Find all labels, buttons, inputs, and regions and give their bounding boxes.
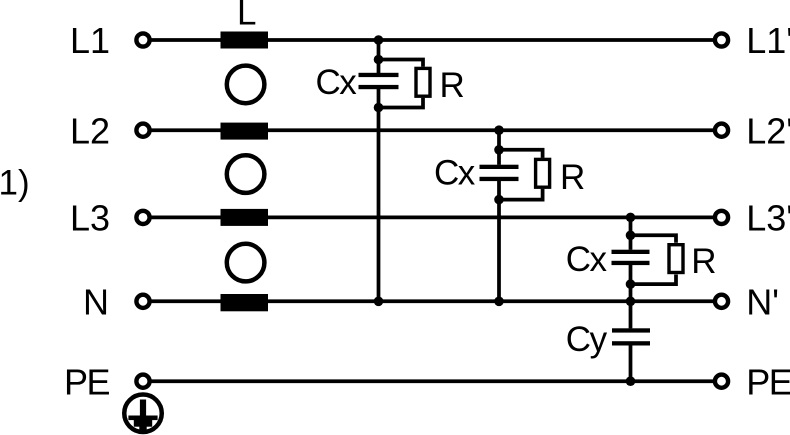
- wire Cy lower lead (to PE): [629, 345, 633, 381]
- svg-text:L3': L3': [746, 198, 790, 239]
- node Cx1/R1 bottom junction: [374, 103, 384, 113]
- node PE/Cy junction: [626, 376, 636, 386]
- node Cx3/R3 top junction: [626, 231, 636, 241]
- svg-text:PE: PE: [64, 362, 110, 403]
- wire Cx1 branch vertical upper: [377, 40, 381, 73]
- node N/Cx2 junction: [494, 297, 504, 307]
- svg-text:L: L: [237, 0, 256, 33]
- terminal L2 left: [136, 124, 149, 137]
- node N/Cx3 junction: [626, 297, 636, 307]
- svg-text:L2: L2: [70, 110, 110, 151]
- node L3/Cx3 junction: [626, 213, 636, 223]
- resistor R3: [669, 245, 683, 273]
- terminal L3' right: [715, 211, 728, 224]
- choke core circle 1: [227, 66, 265, 104]
- node L1/Cx1 junction: [374, 35, 384, 45]
- svg-text:L2': L2': [746, 110, 790, 151]
- terminal L2' right: [715, 124, 728, 137]
- wire R1 top lead: [379, 60, 424, 67]
- node Cx2/R2 bottom junction: [494, 195, 504, 205]
- capacitor Cy bottom plate: [612, 341, 650, 345]
- capacitor Cx2 bottom plate: [480, 177, 519, 181]
- svg-text:L1: L1: [70, 20, 110, 61]
- svg-text:Cx: Cx: [566, 240, 608, 279]
- wire Cx3 branch vertical mid (to N): [629, 265, 633, 329]
- node L2/Cx2 junction: [494, 125, 504, 135]
- terminal L1 left: [136, 33, 149, 46]
- wire L1 net: [143, 38, 721, 42]
- node Cx2/R2 top junction: [494, 145, 504, 155]
- inductor (N line): [221, 294, 269, 311]
- choke core circle 3: [227, 244, 265, 282]
- resistor R2: [536, 159, 550, 187]
- svg-text:Cx: Cx: [434, 154, 476, 193]
- terminal PE right: [715, 375, 728, 388]
- capacitor Cx1 bottom plate: [359, 85, 399, 89]
- inductor (L2 line): [221, 123, 269, 140]
- wire R2 bottom lead: [499, 189, 543, 200]
- resistor R1: [416, 68, 430, 96]
- svg-text:PE: PE: [746, 362, 790, 403]
- wire PE net: [143, 379, 721, 383]
- wire R3 top lead: [631, 235, 677, 242]
- svg-text:1): 1): [0, 163, 30, 202]
- svg-text:R: R: [691, 242, 716, 281]
- choke core circle 2: [227, 155, 265, 193]
- svg-text:Cx: Cx: [316, 63, 358, 102]
- capacitor Cx3 bottom plate: [612, 261, 650, 265]
- wire N net: [143, 299, 721, 303]
- capacitor Cx2 top plate: [480, 165, 519, 169]
- node Cx3/R3 bottom junction: [626, 279, 636, 289]
- wire Cx3 branch vertical upper: [629, 217, 633, 249]
- terminal L3 left: [136, 211, 149, 224]
- svg-text:N: N: [83, 282, 109, 323]
- wire R1 bottom lead: [379, 98, 424, 108]
- wire R2 top lead: [499, 150, 543, 158]
- terminal N left: [136, 295, 149, 308]
- svg-text:N': N': [746, 282, 779, 323]
- node Cx1/R1 top junction: [374, 55, 384, 65]
- svg-text:L3: L3: [70, 198, 110, 239]
- wire Cx1 branch vertical lower (to N): [377, 89, 381, 301]
- capacitor Cx3 top plate: [612, 250, 650, 254]
- terminal N' right: [715, 295, 728, 308]
- svg-text:R: R: [440, 66, 465, 105]
- wire L3 net: [143, 216, 721, 220]
- svg-text:Cy: Cy: [566, 320, 608, 359]
- capacitor Cx1 top plate: [359, 73, 399, 77]
- wire L2 net: [143, 128, 721, 132]
- svg-text:R: R: [560, 158, 585, 197]
- wire Cx2 branch vertical lower (to N): [497, 181, 501, 301]
- capacitor Cy top plate: [612, 328, 650, 332]
- svg-text:L1': L1': [746, 20, 790, 61]
- wire R3 bottom lead: [631, 275, 677, 285]
- terminal L1' right: [715, 33, 728, 46]
- wire Cx2 branch vertical upper: [497, 130, 501, 165]
- terminal PE left: [136, 375, 149, 388]
- node N/Cx1 junction: [374, 297, 384, 307]
- ground protective-earth symbol: [124, 395, 162, 433]
- inductor (L3 line): [221, 209, 269, 226]
- inductor L (L1 line): [221, 32, 269, 49]
